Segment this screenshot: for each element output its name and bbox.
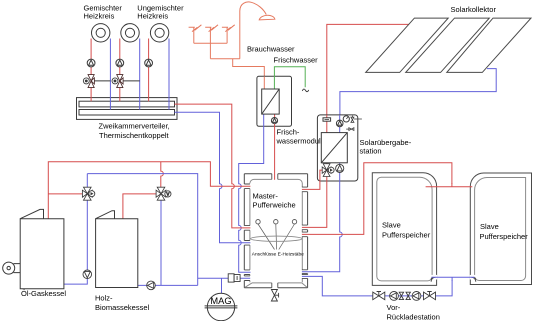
pipe: manifold return from tank P3 (blue) [175, 112, 251, 243]
valve 1 actuator circle [83, 78, 89, 84]
MAG expansion vessel [205, 293, 238, 320]
reload station pump left [390, 292, 399, 301]
master tank port stubs left [244, 184, 250, 281]
svg-text:MAG: MAG [210, 296, 231, 306]
pipe: station valve left port to tank P6 (red) [302, 170, 323, 189]
slave tank 1 outer shell [372, 173, 436, 286]
heating circuit symbol 3 (unmixed) [150, 24, 168, 42]
boiler 1 pump [83, 270, 92, 279]
solar collector panel 1 [366, 18, 449, 72]
master tank top port stub [272, 174, 278, 180]
pipe: boiler 1 return drop through valve and pump (blue) [64, 174, 87, 285]
svg-text:Anschlüsse E-Heizstäbe: Anschlüsse E-Heizstäbe [252, 252, 304, 258]
pipe: module hot to master tank top (red) [274, 114, 276, 180]
SECTION: module [239, 67, 309, 272]
check valve 1 [399, 292, 403, 299]
master tank bottom port stub [272, 283, 278, 288]
tap symbol 1 [189, 25, 202, 43]
solar collector panel 2 [406, 18, 490, 72]
shower head [259, 15, 275, 20]
SECTION: heating circuits [83, 24, 169, 110]
pipe: circuit 1 return (blue) [109, 39, 111, 110]
svg-text:Heizkreis: Heizkreis [84, 11, 115, 20]
pipe: boiler return header (blue) [87, 174, 197, 286]
pipe: boiler 2 bottom return (blue) [138, 284, 198, 286]
pipe: red header into slave top ports [426, 183, 473, 187]
pipe: fresh water inlet (green) [274, 67, 305, 89]
pipe: red branch to boiler valve 1 [48, 193, 82, 195]
pipe: link taps to shower riser [210, 58, 239, 60]
pipe: station internal blue through pumps down to tank P9 [302, 115, 342, 272]
station valve actuator [328, 167, 334, 173]
pipe: taps down to link [209, 43, 211, 59]
SECTION: solar [302, 18, 531, 272]
pipe: solar return from collector (blue) [340, 69, 496, 115]
pipe: circuit 2 return (blue) [139, 39, 141, 110]
valve 1 actuator [89, 191, 95, 197]
actuator link valve 2 to return [123, 80, 140, 82]
svg-text:Pufferspeicher: Pufferspeicher [382, 231, 431, 240]
pipe: expansion line to tank P5 (blue) [198, 277, 251, 279]
module pump [271, 118, 277, 124]
station safety valve group [346, 116, 362, 131]
slave tank 1 inner wall [377, 177, 432, 281]
svg-text:Slave: Slave [480, 222, 499, 231]
pump circuit 2 [116, 59, 124, 67]
station pressure gauge [343, 116, 349, 122]
manifold chamber 2 (return) [79, 110, 175, 116]
slave 2 bottom port [470, 275, 476, 282]
SECTION: master tank [244, 174, 307, 301]
master tank port stubs right [302, 187, 308, 278]
boiler 2 pump [147, 281, 156, 290]
pipe: circuit 3 supply (red) [148, 39, 150, 102]
pipe: tank P8 to slave distribution (red) [302, 163, 452, 235]
pipe: warm water drop inside module [263, 76, 265, 89]
station three-way valve [322, 164, 331, 177]
solar collector panel 3 [447, 18, 531, 72]
slave tank 2 inner wall [475, 178, 526, 281]
svg-text:Öl-Gaskessel: Öl-Gaskessel [21, 289, 66, 298]
pipe: station internal flow (red) to HX and down to tank P7 [302, 115, 327, 227]
svg-text:Slave: Slave [382, 221, 401, 230]
pipe: boiler supply header to tank P1 (red) [48, 162, 250, 219]
svg-text:Pufferweiche: Pufferweiche [253, 201, 296, 210]
drain valve [271, 290, 278, 302]
svg-text:Frischwasser: Frischwasser [274, 56, 319, 65]
heating circuit symbol 1 (mixed circuit) [92, 24, 110, 42]
biomass boiler body [96, 211, 138, 288]
svg-text:Vor-: Vor- [387, 303, 401, 312]
pipe: warm water to module heat exchanger [233, 59, 265, 89]
heating circuit symbol 2 [121, 24, 139, 42]
svg-text:Rückladestation: Rückladestation [387, 313, 440, 321]
svg-text:Pufferspeicher: Pufferspeicher [480, 232, 529, 241]
three-way mixing valve circuit 1 [88, 75, 94, 88]
pipe: circuit 1 supply (red) [90, 39, 92, 102]
pipe: valve 2 top riser (red) [161, 162, 164, 189]
reload station pump right [412, 292, 421, 301]
pipe: circuit 3 return (blue) [168, 39, 170, 110]
pipe: solar flow riser (red) [327, 24, 410, 115]
station pump lower [336, 164, 344, 172]
module heat exchanger [262, 89, 280, 114]
electric heater connection circles [256, 220, 297, 224]
slave 1 bottom port [431, 275, 437, 282]
svg-text:Master-: Master- [253, 192, 279, 201]
pump circuit 1 [87, 59, 95, 67]
pipe: boiler 2 riser to valve 2 (red) [123, 194, 157, 219]
svg-text:Biomassekessel: Biomassekessel [95, 303, 150, 312]
svg-text:Brauchwasser: Brauchwasser [247, 45, 295, 54]
reload station shutoff valve right [424, 292, 436, 300]
oil/gas boiler body [20, 209, 64, 288]
leader lines to E-Heizstaebe text [258, 224, 295, 250]
valve 2 actuator circle [112, 78, 118, 84]
SECTION: slaves [302, 163, 532, 300]
station pump upper [336, 120, 343, 127]
tap manifold pipe [194, 42, 227, 44]
svg-text:Thermischentkoppelt: Thermischentkoppelt [99, 131, 170, 140]
SECTION: mag [198, 274, 251, 321]
cap valve boxes on expansion line [228, 274, 240, 282]
shower riser pipe [240, 2, 266, 59]
svg-text:station: station [360, 147, 382, 156]
Solaruebergabestation box [317, 115, 357, 181]
master tank inner wall [245, 179, 307, 287]
three-way mixing valve circuit 2 [117, 75, 123, 88]
pipe: tank P10 to reload station (blue) [302, 276, 452, 296]
svg-text:wassermodul: wassermodul [276, 137, 322, 146]
tap symbol 2 [205, 25, 218, 43]
reload station shutoff valve left [373, 292, 385, 300]
pipe: blue link between slave bottom ports [432, 277, 475, 281]
pipe: manifold supply to tank P2 (red) [175, 104, 251, 228]
station heat exchanger [321, 133, 347, 163]
Frischwassermodul box [257, 76, 292, 126]
slave tank 2 outer shell [470, 173, 531, 285]
diffuser plate ellipse [251, 236, 302, 241]
actuator link valve 1 to return [94, 80, 110, 82]
pipe: valve 2 bottom drop (blue) [160, 199, 162, 286]
svg-text:V: V [167, 192, 170, 197]
boiler mixing valve 2 [156, 187, 166, 200]
pipe: MAG drop (blue) [221, 278, 223, 293]
svg-text:Heizkreis: Heizkreis [137, 11, 168, 20]
SECTION: manifold [77, 98, 178, 120]
SECTION: brauchwasser [189, 2, 275, 89]
svg-text:Frisch-: Frisch- [277, 128, 300, 137]
mains supply symbol (~) [302, 89, 308, 92]
pipe: module return to tank (blue) [239, 114, 264, 272]
manifold chamber 1 (supply) [79, 101, 175, 107]
svg-text:Holz-: Holz- [95, 294, 113, 303]
pump circuit 3 [145, 59, 153, 67]
oil/gas boiler burner [3, 262, 21, 274]
svg-text:Zweikammerverteiler,: Zweikammerverteiler, [99, 121, 170, 130]
manifold outer box (Zweikammerverteiler) [77, 98, 178, 120]
pipe: circuit 2 supply (red) [119, 39, 121, 102]
boiler mixing valve 1 [82, 187, 92, 200]
tap symbol 3 [222, 25, 235, 43]
master buffer tank outer shell [244, 174, 307, 288]
valve 2 actuator [165, 191, 171, 197]
check valve 2 [406, 292, 410, 299]
station flow meter [323, 118, 331, 121]
svg-text:Solarkollektor: Solarkollektor [451, 5, 497, 14]
SECTION: boilers [3, 104, 251, 290]
